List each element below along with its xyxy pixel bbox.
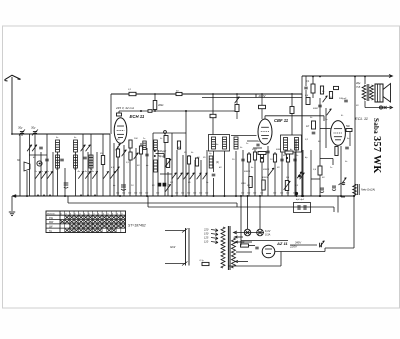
svg-text:125: 125 <box>204 236 209 240</box>
svg-text:2MΩ: 2MΩ <box>240 183 246 185</box>
svg-text:4μF 4μF: 4μF 4μF <box>296 198 305 201</box>
svg-text:220V: 220V <box>289 245 298 249</box>
svg-text:100μμF: 100μμF <box>339 98 347 100</box>
svg-text:LF: LF <box>306 124 309 128</box>
svg-text:(2): (2) <box>216 161 219 164</box>
svg-text:40k1: 40k1 <box>158 103 164 107</box>
svg-text:5000: 5000 <box>313 108 319 110</box>
svg-text:6,3V: 6,3V <box>265 229 271 233</box>
svg-text:100μμF: 100μμF <box>158 150 167 153</box>
svg-text:50000: 50000 <box>244 171 251 173</box>
svg-text:ST=187462: ST=187462 <box>128 224 146 228</box>
svg-text:MW: MW <box>49 221 54 224</box>
svg-text:Netz Dr(2A): Netz Dr(2A) <box>361 188 375 192</box>
svg-text:0,3A: 0,3A <box>265 233 271 237</box>
svg-text:AZ 11: AZ 11 <box>276 241 288 246</box>
svg-text:CBF 11: CBF 11 <box>274 118 289 123</box>
svg-text:220: 220 <box>203 228 209 232</box>
svg-text:5000: 5000 <box>276 149 282 151</box>
svg-text:Saba 357 WK: Saba 357 WK <box>371 118 382 174</box>
svg-text:30μ: 30μ <box>18 126 23 130</box>
svg-text:150: 150 <box>204 232 209 236</box>
svg-text:5000: 5000 <box>252 149 258 151</box>
svg-text:40μ: 40μ <box>356 81 361 85</box>
svg-text:ECH 11: ECH 11 <box>130 114 145 119</box>
svg-text:30000: 30000 <box>263 169 270 171</box>
svg-text:110: 110 <box>204 240 209 244</box>
svg-text:ECL 11: ECL 11 <box>355 116 368 121</box>
svg-text:Wellenb.: Wellenb. <box>47 214 56 216</box>
svg-text:30μ: 30μ <box>31 126 36 130</box>
svg-text:40000: 40000 <box>262 176 269 179</box>
svg-text:7x5: 7x5 <box>356 85 361 89</box>
svg-text:245 V, 42 mA: 245 V, 42 mA <box>115 106 134 110</box>
svg-text:TA: TA <box>49 230 52 233</box>
